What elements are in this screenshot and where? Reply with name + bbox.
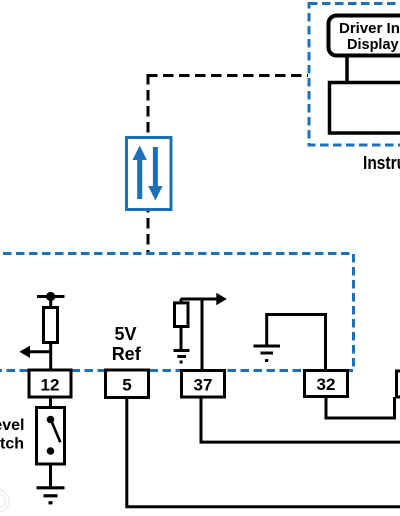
wire: pin 5 down and right (5V ref feed) bbox=[127, 398, 400, 507]
arrow: points left bbox=[20, 346, 31, 358]
svg-text:Instrument Cluster: Instrument Cluster bbox=[363, 153, 400, 173]
pin 37 box bbox=[182, 371, 225, 398]
wire: resistor R2 to ground bbox=[180, 327, 183, 351]
module U1: Instrument Cluster dashed boundary bbox=[309, 4, 400, 146]
node: supply node bar above resistor R1 bbox=[37, 295, 65, 298]
svg-text:Ref: Ref bbox=[112, 344, 142, 364]
wire: switch to ground bbox=[49, 464, 52, 488]
pin box (right edge, cut off) bbox=[397, 371, 400, 397]
wire: pin 37 down and right (signal) bbox=[201, 397, 400, 442]
wire: pin 37 vertical to junction bbox=[201, 299, 204, 371]
wire: pin 12 to level switch bbox=[49, 397, 52, 409]
junction dot bbox=[46, 292, 55, 301]
pin 5 box bbox=[106, 370, 149, 398]
svg-text:Level: Level bbox=[0, 417, 25, 434]
svg-text:Display: Display bbox=[347, 37, 399, 53]
resistor R1 (pull-up inside module) bbox=[44, 308, 58, 343]
switch blade bbox=[51, 420, 60, 442]
svg-text:5: 5 bbox=[122, 376, 131, 395]
resistor R2 (pull-down inside module) bbox=[175, 303, 189, 327]
svg-text:37: 37 bbox=[194, 376, 213, 395]
wire: internal ground branch to pin 32 bbox=[267, 315, 326, 372]
svg-text:Switch: Switch bbox=[0, 436, 24, 453]
module U2: control module dashed boundary bbox=[0, 254, 354, 371]
switch contact bottom bbox=[47, 447, 55, 455]
svg-text:Driver Info: Driver Info bbox=[339, 20, 400, 37]
pin 32 box bbox=[305, 371, 348, 397]
wire: connector between display and cluster block bbox=[345, 55, 349, 83]
wire: serial data dashed line horizontal bbox=[147, 74, 308, 77]
component: cluster inner block bbox=[330, 83, 400, 134]
component: Driver Info Display (rounded box inside cluster) bbox=[329, 16, 400, 56]
wire: horizontal to right arrow bbox=[181, 298, 217, 301]
ground G3 (internal, pin 32 branch) bbox=[254, 346, 281, 361]
arrow: points right bbox=[216, 293, 227, 305]
wire: resistor R1 to pin 12 bbox=[49, 343, 52, 372]
switch contact top bbox=[47, 416, 55, 424]
wire: pin 32 to right connector bbox=[326, 397, 395, 419]
wire: left branch with arrow (signal continues) bbox=[29, 350, 51, 353]
down arrow bbox=[148, 147, 162, 201]
component: serial data link symbol (blue box with arrows) bbox=[127, 138, 172, 210]
watermark circle (bottom-left faint logo) bbox=[0, 490, 9, 512]
svg-text:32: 32 bbox=[317, 375, 336, 394]
wire: node to resistor R1 bbox=[49, 297, 52, 309]
svg-text:5V: 5V bbox=[114, 324, 136, 344]
up arrow bbox=[133, 146, 147, 200]
pin 12 box bbox=[29, 370, 71, 397]
wire: serial data dashed line vertical bbox=[147, 74, 150, 252]
svg-text:12: 12 bbox=[41, 376, 60, 395]
component: level switch SW1 bbox=[37, 408, 65, 465]
ground G2 (internal, under R2) bbox=[174, 351, 190, 363]
wire: down to resistor R2 bbox=[180, 299, 183, 304]
ground G1 (level switch) bbox=[37, 488, 65, 503]
